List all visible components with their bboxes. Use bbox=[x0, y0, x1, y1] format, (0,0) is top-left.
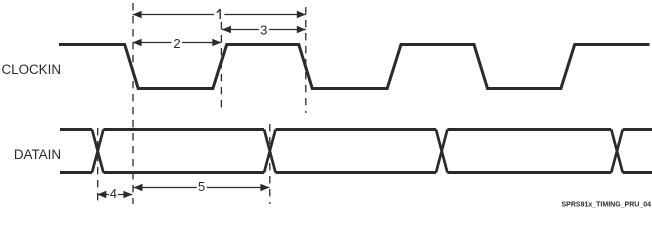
arrow 4 right head bbox=[123, 191, 132, 198]
arrow 5 right head bbox=[260, 184, 269, 191]
arrow 4 label box bbox=[109, 188, 118, 201]
svg-text:4: 4 bbox=[110, 186, 117, 201]
arrow 3 right head bbox=[297, 26, 306, 33]
arrow 4 left head bbox=[97, 191, 106, 198]
dimension arrow 2 (clock low pulse) line bbox=[133, 42, 222, 44]
arrow 5 left head bbox=[134, 184, 143, 191]
arrow 2 left head bbox=[133, 39, 142, 46]
label 1 (drawn as path, Helvetica-style without foot serif) bbox=[217, 9, 220, 19]
svg-text:5: 5 bbox=[198, 179, 205, 194]
dashed guide line at second clock falling edge (x=305.8) bbox=[305, 7, 307, 113]
dashed guide line at first clock falling edge (x=133) bbox=[132, 3, 134, 204]
dashed guide line at first clock rising edge (x=221.4) bbox=[220, 22, 222, 108]
arrow 1 left head bbox=[133, 11, 142, 18]
svg-text:2: 2 bbox=[173, 36, 180, 51]
svg-text:3: 3 bbox=[260, 22, 267, 37]
data crossover X1 bbox=[92, 130, 103, 173]
data crossover X2 bbox=[264, 130, 275, 173]
DATAIN bus bottom rail bbox=[60, 171, 652, 174]
arrow 2 label box bbox=[172, 36, 183, 49]
svg-text:SPRS91x_TIMING_PRU_04: SPRS91x_TIMING_PRU_04 bbox=[562, 202, 652, 209]
dashed guide line at second data transition (x=269.8) bbox=[269, 124, 271, 204]
DATAIN bus top rail bbox=[60, 128, 652, 131]
data crossover X3 bbox=[436, 130, 447, 173]
arrow 1 right head bbox=[297, 11, 306, 18]
arrow 1 label box bbox=[214, 3, 224, 22]
arrow 3 label box bbox=[259, 23, 269, 36]
arrow 2 right head bbox=[212, 39, 221, 46]
svg-text:CLOCKIN: CLOCKIN bbox=[1, 62, 61, 77]
CLOCKIN waveform bbox=[59, 45, 650, 89]
dimension arrow 3 (clock high pulse) line bbox=[222, 29, 306, 31]
arrow 5 label box bbox=[197, 181, 207, 194]
dimension arrow 1 (clock period) line bbox=[133, 14, 306, 16]
dimension arrow 4 (data setup) line bbox=[97, 194, 132, 196]
dimension arrow 5 (data hold) line bbox=[134, 187, 270, 189]
arrow 3 left head bbox=[222, 26, 231, 33]
svg-text:DATAIN: DATAIN bbox=[14, 147, 61, 162]
data crossover X4 bbox=[611, 130, 622, 173]
dashed guide line at first data transition (x=97.7) bbox=[97, 128, 99, 204]
